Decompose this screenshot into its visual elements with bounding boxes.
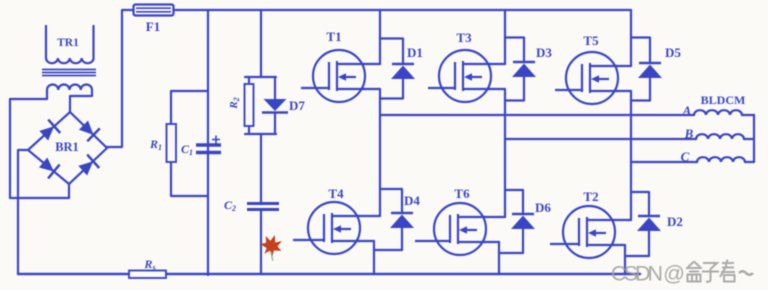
transistor T6 bbox=[415, 186, 486, 255]
svg-text:T4: T4 bbox=[328, 186, 344, 201]
svg-text:TR1: TR1 bbox=[57, 37, 79, 49]
wire T5 drain to leg bbox=[616, 65, 631, 67]
diode D6 bbox=[511, 190, 551, 253]
wire R2/D7 loop bottom bbox=[245, 133, 276, 135]
diode D4 bbox=[390, 189, 420, 250]
transistor T5 bbox=[555, 33, 618, 104]
svg-text:D2: D2 bbox=[667, 214, 683, 229]
wire T6 source to bottom rail bbox=[498, 242, 500, 274]
capacitor C1 bbox=[181, 136, 221, 157]
wire phase A bbox=[380, 114, 694, 116]
wire top rail bbox=[174, 9, 632, 11]
wire D6 bottom bbox=[499, 252, 523, 254]
svg-text:D6: D6 bbox=[535, 200, 551, 215]
wire F1 to bridge positive corner bbox=[107, 10, 134, 147]
wire T2 drain to leg bbox=[613, 219, 631, 221]
svg-text:CSDN @: CSDN @ bbox=[611, 262, 685, 286]
wire phase B bbox=[505, 138, 696, 140]
svg-text:D7: D7 bbox=[289, 98, 305, 113]
wire T1 source to leg bbox=[363, 88, 380, 90]
diode D1 bbox=[391, 39, 423, 99]
svg-text:T2: T2 bbox=[583, 189, 598, 204]
wire winding C to star bbox=[745, 161, 754, 163]
transistor T3 bbox=[428, 30, 491, 102]
wire phase leg T5/T2 bbox=[630, 91, 632, 220]
motor winding C bbox=[697, 157, 745, 162]
wire step to D1 bbox=[380, 37, 403, 39]
wire T6 drain to leg bbox=[484, 216, 505, 218]
wire secondary left to bridge AC- bbox=[10, 90, 69, 198]
svg-text:T6: T6 bbox=[454, 186, 470, 201]
svg-text:T1: T1 bbox=[326, 29, 341, 44]
motor winding A bbox=[694, 110, 742, 115]
wire D3 bottom to leg bbox=[505, 99, 524, 101]
wire step to D2 bbox=[631, 191, 649, 193]
diode D2 bbox=[637, 192, 683, 256]
resistor R2 bbox=[228, 77, 254, 134]
wire step to D6 bbox=[505, 189, 523, 191]
svg-text:D3: D3 bbox=[536, 45, 552, 60]
capacitor C2 bbox=[224, 198, 279, 213]
svg-text:BR1: BR1 bbox=[55, 140, 79, 154]
wire T6 source bbox=[484, 241, 499, 243]
wire bottom rail bbox=[18, 273, 640, 275]
wire T3 source to leg bbox=[489, 88, 505, 90]
wire rail to T3 drain bbox=[504, 10, 506, 64]
transistor T4 bbox=[293, 186, 360, 254]
wire winding B to star bbox=[744, 138, 754, 140]
diode D7 bbox=[262, 77, 305, 134]
svg-text:BLDCM: BLDCM bbox=[701, 93, 746, 107]
wire D5 bottom to leg bbox=[631, 99, 650, 101]
bridge diode lower-right bbox=[78, 155, 99, 176]
wire D4 bottom bbox=[374, 249, 402, 251]
wire R2/D7 loop top bbox=[245, 76, 276, 78]
svg-text:F1: F1 bbox=[146, 19, 160, 34]
wire secondary right to bridge AC+ bbox=[70, 90, 92, 112]
bridge diode upper-left bbox=[39, 120, 60, 141]
wire top to R2/D7 loop bbox=[260, 10, 262, 77]
wire rail to T5 drain bbox=[630, 10, 632, 66]
wire T4 source to bottom rail bbox=[373, 241, 375, 274]
wire bridge negative to bottom rail bbox=[18, 150, 28, 274]
watermark CJK glyphs bbox=[686, 260, 753, 282]
svg-text:D5: D5 bbox=[665, 45, 681, 60]
wire loop to C2 bbox=[260, 134, 262, 202]
wire C1 rail vertical bbox=[207, 10, 209, 275]
bridge diode lower-left bbox=[39, 158, 60, 179]
wire T2 source bbox=[613, 244, 625, 246]
wire T1 drain to leg bbox=[363, 63, 380, 65]
wire T4 drain to leg bbox=[358, 215, 380, 217]
svg-text:D1: D1 bbox=[407, 45, 423, 60]
transformer TR1 bbox=[42, 25, 96, 90]
wire T5 source to leg bbox=[616, 90, 631, 92]
resistor Rs bbox=[129, 257, 166, 278]
wire step to D5 bbox=[631, 36, 650, 38]
wire R1 bottom bbox=[171, 195, 208, 197]
fuse F1 bbox=[134, 5, 174, 35]
svg-text:T3: T3 bbox=[456, 30, 472, 45]
wire winding A to star bbox=[742, 114, 754, 116]
bridge rectifier BR1 bbox=[28, 112, 107, 184]
transistor T2 bbox=[550, 189, 615, 258]
svg-text:A: A bbox=[682, 103, 692, 118]
diode D3 bbox=[512, 38, 552, 101]
wire star point bbox=[753, 115, 755, 162]
wire R1 top bbox=[171, 90, 208, 92]
transistor T1 bbox=[301, 29, 365, 102]
resistor R1 bbox=[149, 91, 176, 196]
svg-text:C: C bbox=[681, 149, 690, 164]
bridge diode upper-right bbox=[79, 121, 100, 142]
wire C2 to bottom rail bbox=[260, 210, 262, 274]
wire step to D4 bbox=[380, 188, 402, 190]
svg-text:B: B bbox=[684, 126, 694, 141]
wire phase leg T3/T6 bbox=[504, 89, 506, 217]
wire step to D3 bbox=[505, 36, 524, 38]
diode D5 bbox=[638, 38, 681, 101]
wire T3 drain to leg bbox=[489, 63, 505, 65]
wire rail to T1 drain bbox=[379, 10, 381, 64]
wire phase leg T1/T4 bbox=[379, 89, 381, 216]
motor winding B bbox=[696, 134, 744, 139]
wire D1 bottom to leg bbox=[380, 97, 403, 99]
wire T4 source bbox=[358, 240, 374, 242]
wire T2 source to bottom rail bbox=[624, 245, 626, 274]
watermark maple leaf bbox=[257, 232, 286, 263]
wire D2 bottom bbox=[625, 255, 649, 257]
svg-text:T5: T5 bbox=[583, 33, 599, 48]
wire phase C bbox=[631, 161, 697, 163]
svg-text:D4: D4 bbox=[404, 193, 420, 208]
